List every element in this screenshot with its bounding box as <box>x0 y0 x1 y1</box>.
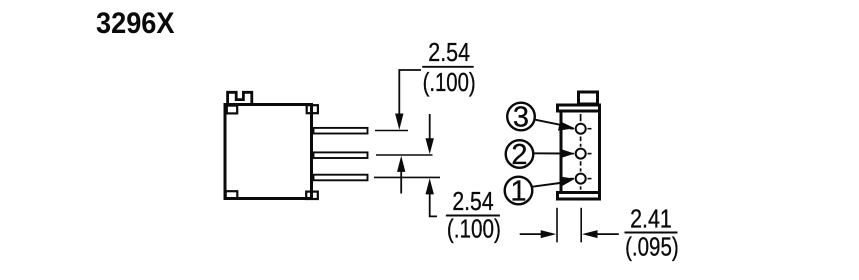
pin 3 hole with center ticks <box>570 124 592 134</box>
pin 1 hole with center ticks <box>570 174 592 184</box>
svg-text:3: 3 <box>513 101 529 133</box>
title 3296X <box>96 7 175 40</box>
extension line pin 1 <box>374 176 440 178</box>
corner tab bottom-right <box>306 192 318 199</box>
pin number balloon 3 <box>507 101 535 133</box>
dimension text lower (.100) <box>447 215 501 243</box>
extension line pin 3 <box>375 130 408 132</box>
trimmer front view top flange <box>558 105 600 111</box>
pin 3 lead side view <box>314 128 368 134</box>
down arrow onto pin2 line <box>426 114 434 154</box>
svg-text:1: 1 <box>510 175 526 207</box>
dimension text upper (.100) <box>423 69 476 97</box>
pin 2 hole with center ticks <box>570 149 592 159</box>
pin number balloon 2 <box>506 139 534 171</box>
pin 2 lead side view <box>314 152 368 158</box>
leader arrow balloon1 to pin1 <box>532 177 575 187</box>
fraction bar 2.41 <box>625 232 678 234</box>
svg-text:2.54: 2.54 <box>452 188 493 216</box>
fraction bar upper <box>422 66 474 68</box>
fraction bar lower <box>446 215 500 217</box>
svg-text:2.54: 2.54 <box>428 39 470 67</box>
trimmer body side view outline <box>225 105 312 199</box>
dimension text 2.41 <box>630 206 672 234</box>
trimmer front view top tab <box>579 92 598 104</box>
pin number balloon 1 <box>505 175 533 207</box>
trimmer front view body <box>561 111 600 193</box>
extension line right of 2.41 dim <box>580 208 582 243</box>
svg-text:2.41: 2.41 <box>630 206 672 234</box>
dimension text (.095) <box>625 233 679 261</box>
corner tab top-right <box>307 105 318 113</box>
pin 1 lead side view <box>314 175 368 181</box>
corner tab top-left <box>227 106 237 114</box>
up arrow onto pin2 line <box>397 156 405 194</box>
svg-text:3296X: 3296X <box>96 7 175 40</box>
trimmer front view bottom flange <box>558 193 600 200</box>
adjustment screw castle tab <box>228 92 252 104</box>
svg-text:2: 2 <box>511 139 527 171</box>
leader upper 2.54 dim <box>395 70 421 130</box>
extension line pin 2 <box>376 154 433 156</box>
leader arrow balloon2 to pin2 <box>534 149 575 159</box>
leader arrow balloon3 to pin3 <box>535 120 575 131</box>
right arrow of 2.41 dim <box>582 230 619 238</box>
svg-text:(.100): (.100) <box>447 215 501 243</box>
extension line left of 2.41 dim <box>556 208 558 243</box>
corner tab bottom-left <box>226 191 238 198</box>
dimension text lower 2.54 <box>452 188 493 216</box>
svg-text:(.100): (.100) <box>423 69 476 97</box>
left arrow of 2.41 dim <box>520 230 557 238</box>
dashed vertical centerline <box>580 114 582 190</box>
svg-text:(.095): (.095) <box>625 233 679 261</box>
dimension text upper 2.54 <box>428 39 470 67</box>
up arrow onto pin1 line with leader to lower text <box>426 178 438 216</box>
